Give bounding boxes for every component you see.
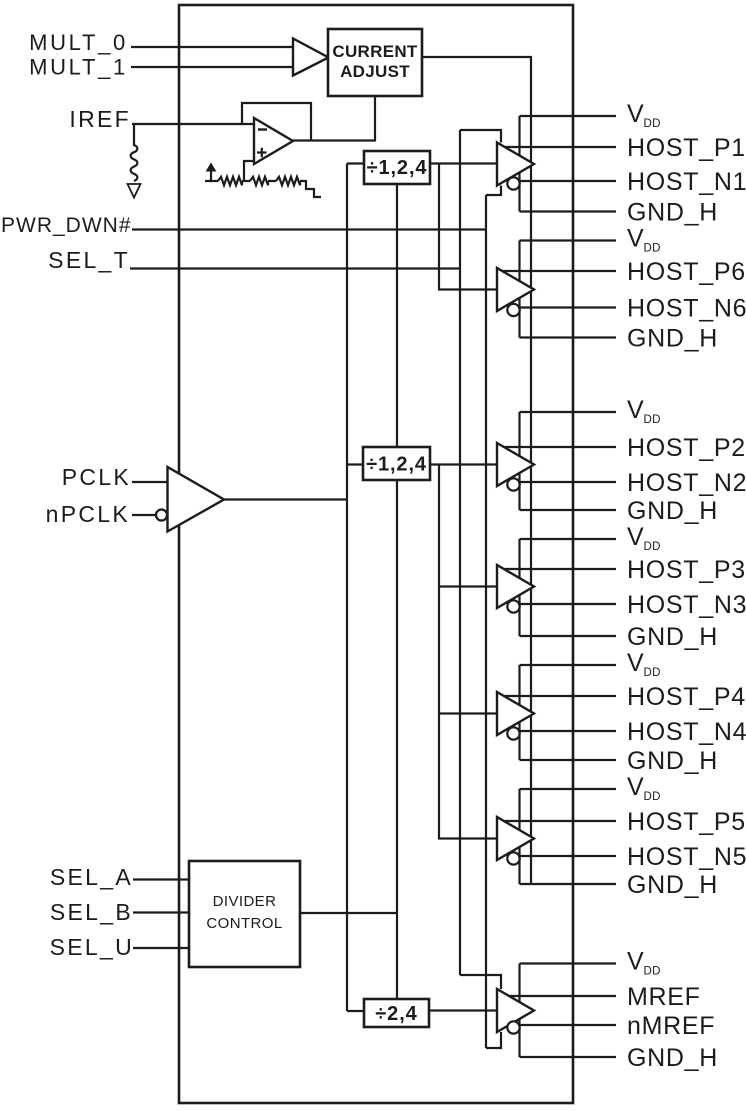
pin nMREF	[518, 1012, 715, 1040]
pin GND_H (U6 HOST6)	[520, 325, 719, 353]
svg-text:HOST_P5: HOST_P5	[627, 808, 746, 836]
svg-text:MULT_0: MULT_0	[29, 30, 128, 55]
block DIVIDER CONTROL	[189, 861, 397, 967]
buffer U6 HOST6 power rail	[518, 241, 520, 338]
svg-text:IREF: IREF	[69, 106, 131, 132]
svg-text:V: V	[627, 523, 644, 551]
svg-text:SEL_B: SEL_B	[50, 899, 133, 925]
svg-text:GND_H: GND_H	[627, 199, 718, 227]
svg-text:SEL_T: SEL_T	[48, 247, 130, 273]
wire PWR_DWN# rail (net to bottoms of buffer U1 and MREF buffer)	[486, 186, 501, 1049]
svg-text:÷2,4: ÷2,4	[375, 1003, 417, 1025]
buffer U6 HOST6 (differential output buffer)	[497, 268, 534, 316]
buffer U8 HOST3 (differential output buffer)	[497, 565, 534, 613]
pin V_DD (U6 HOST6)	[520, 225, 661, 255]
svg-text:V: V	[627, 225, 644, 253]
ground (resistor chain return)	[300, 181, 321, 197]
pin GND_H (U9 HOST4)	[520, 747, 719, 775]
wire SEL_T rail (net to tops of buffer U1 and MREF buffer)	[460, 130, 501, 989]
svg-text:HOST_N6: HOST_N6	[627, 295, 746, 323]
svg-text:GND_H: GND_H	[627, 325, 718, 353]
svg-text:HOST_P6: HOST_P6	[627, 258, 746, 286]
svg-text:SEL_A: SEL_A	[50, 864, 133, 890]
pin V_DD (U11 MREF)	[520, 948, 661, 978]
node current source arrow	[205, 164, 216, 182]
buffer U5 HOST1 (differential output buffer)	[497, 143, 534, 190]
svg-text:GND_H: GND_H	[627, 1044, 718, 1072]
resistor R1	[211, 177, 242, 185]
node PCLK	[62, 464, 168, 490]
wire divider2 output rail to buffers 2,3,4,5	[439, 465, 497, 839]
wire PCLK distribution rail	[347, 164, 364, 1012]
svg-text:GND_H: GND_H	[627, 871, 718, 899]
pin HOST_N3	[518, 591, 746, 619]
pin HOST_P3	[504, 556, 746, 584]
node MULT_0	[29, 30, 293, 55]
buffer U11 MREF power rail	[518, 964, 520, 1058]
buffer U4 (PCLK differential input)	[156, 467, 347, 532]
svg-text:ADJUST: ADJUST	[340, 62, 410, 81]
pin HOST_N2	[518, 469, 746, 497]
resistor R_IREF (external, squiggle to arrow)	[128, 124, 141, 198]
svg-text:DD: DD	[644, 118, 661, 130]
node IREF	[69, 106, 254, 132]
svg-text:nMREF: nMREF	[627, 1012, 715, 1040]
svg-text:PWR_DWN#: PWR_DWN#	[1, 214, 132, 237]
svg-text:HOST_N3: HOST_N3	[627, 591, 746, 619]
chip boundary	[179, 5, 573, 1103]
svg-text:GND_H: GND_H	[627, 623, 718, 651]
svg-text:MREF: MREF	[627, 983, 701, 1011]
svg-text:HOST_P2: HOST_P2	[627, 434, 746, 462]
pin V_DD (U10 HOST5)	[520, 773, 661, 803]
buffer U9 HOST4 power rail	[518, 665, 520, 760]
pin HOST_N5	[518, 843, 746, 871]
node SEL_A	[50, 864, 189, 890]
wire op-amp plus input tap	[244, 161, 255, 181]
svg-text:SEL_U: SEL_U	[50, 934, 134, 960]
svg-text:DD: DD	[644, 791, 661, 803]
pin GND_H (U10 HOST5)	[520, 871, 719, 899]
svg-text:PCLK: PCLK	[62, 464, 131, 490]
svg-text:DD: DD	[644, 667, 661, 679]
svg-text:nPCLK: nPCLK	[46, 501, 130, 527]
pin V_DD (U8 HOST3)	[520, 523, 661, 553]
svg-text:GND_H: GND_H	[627, 747, 718, 775]
op-amp U3 feedback wire	[242, 103, 311, 141]
svg-text:V: V	[627, 649, 644, 677]
svg-text:HOST_N4: HOST_N4	[627, 718, 746, 746]
svg-text:V: V	[627, 396, 644, 424]
pin HOST_N6	[518, 295, 746, 323]
buffer U7 HOST2 (differential output buffer)	[497, 443, 534, 491]
svg-text:HOST_P4: HOST_P4	[627, 683, 746, 711]
svg-text:DD: DD	[644, 966, 661, 978]
block divider 2,4 (bottom)	[364, 999, 497, 1027]
pin V_DD (U7 HOST2)	[520, 396, 661, 426]
node SEL_B	[50, 899, 189, 925]
pin HOST_P1	[505, 134, 746, 162]
pin GND_H (U8 HOST3)	[520, 623, 719, 651]
svg-text:HOST_P3: HOST_P3	[627, 556, 746, 584]
pin MREF	[509, 983, 701, 1011]
buffer U10 HOST5 power rail	[518, 789, 520, 884]
svg-text:HOST_N5: HOST_N5	[627, 843, 746, 871]
block divider 1,2,4 (middle)	[363, 447, 497, 480]
buffer U11 MREF (differential output buffer)	[497, 989, 534, 1034]
svg-text:HOST_N2: HOST_N2	[627, 469, 746, 497]
svg-text:CURRENT: CURRENT	[332, 42, 418, 61]
svg-text:÷1,2,4: ÷1,2,4	[366, 454, 427, 476]
pin HOST_N4	[518, 718, 746, 746]
buffer U7 HOST2 power rail	[518, 412, 520, 510]
svg-text:MULT_1: MULT_1	[29, 55, 128, 80]
pin GND_H (U5 HOST1)	[520, 199, 719, 227]
svg-text:HOST_P1: HOST_P1	[627, 134, 746, 162]
node SEL_U	[50, 934, 189, 960]
svg-text:DIVIDER: DIVIDER	[213, 893, 277, 910]
node SEL_T	[48, 247, 460, 273]
buffer U9 HOST4 (differential output buffer)	[497, 692, 534, 740]
svg-text:CONTROL: CONTROL	[206, 915, 282, 932]
svg-text:HOST_N1: HOST_N1	[627, 168, 746, 196]
resistor R3	[268, 177, 300, 185]
buffer U5 HOST1 power rail	[518, 116, 520, 212]
pin V_DD (U9 HOST4)	[520, 649, 661, 679]
pin GND_H (U7 HOST2)	[520, 497, 719, 525]
svg-text:DD: DD	[644, 414, 661, 426]
pin V_DD (U5 HOST1)	[520, 100, 661, 130]
node MULT_1	[29, 55, 293, 80]
wire current-adjust bias rail	[422, 57, 531, 884]
svg-text:V: V	[627, 948, 644, 976]
wire divider-control rail	[396, 184, 398, 999]
svg-text:V: V	[627, 100, 644, 128]
buffer U8 HOST3 power rail	[518, 539, 520, 636]
block divider 1,2,4 (top)	[364, 151, 497, 184]
pin HOST_P2	[504, 434, 746, 462]
op-amp U3	[254, 118, 293, 164]
svg-text:V: V	[627, 773, 644, 801]
pin GND_H (U11 MREF)	[520, 1044, 719, 1072]
wire op-amp output to current adjust	[293, 96, 375, 141]
svg-text:GND_H: GND_H	[627, 497, 718, 525]
pin HOST_N1	[518, 168, 746, 196]
pin HOST_P4	[504, 683, 746, 711]
node nPCLK	[46, 501, 156, 527]
svg-text:÷1,2,4: ÷1,2,4	[367, 157, 428, 179]
buffer U2 (MULT input buffer)	[293, 39, 329, 76]
resistor R2	[242, 177, 268, 185]
block CURRENT ADJUST	[328, 29, 422, 96]
svg-text:DD: DD	[644, 541, 661, 553]
pin HOST_P5	[504, 808, 746, 836]
pin HOST_P6	[502, 258, 746, 286]
svg-text:DD: DD	[644, 243, 661, 255]
buffer U10 HOST5 (differential output buffer)	[497, 817, 534, 865]
wire divider1 output rail to buffers 1,6	[439, 164, 497, 290]
node PWR_DWN#	[1, 214, 486, 237]
